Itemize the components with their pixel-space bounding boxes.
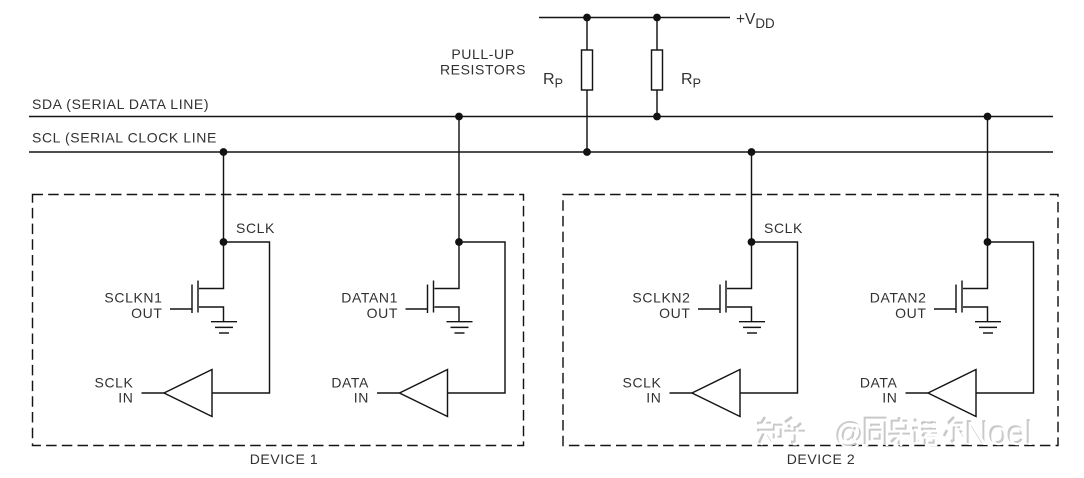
svg-text:SCLK: SCLK — [95, 375, 134, 391]
device 1 dashed box — [33, 195, 524, 446]
junction SCLK node device2 — [748, 238, 756, 246]
junction Rp2-SDA — [653, 113, 661, 121]
svg-text:RP: RP — [543, 71, 563, 91]
svg-text:SCL (SERIAL CLOCK LINE: SCL (SERIAL CLOCK LINE — [32, 130, 217, 146]
wire SDA drop device2 — [987, 117, 989, 243]
svg-text:DEVICE 2: DEVICE 2 — [787, 451, 856, 467]
ground SCLKN1 source — [211, 322, 237, 333]
ground DATAN2 source — [975, 322, 1001, 333]
svg-text:DATAN2: DATAN2 — [870, 290, 927, 306]
svg-text:IN: IN — [646, 390, 661, 406]
svg-text:DATAN1: DATAN1 — [341, 290, 398, 306]
svg-text:DATA: DATA — [331, 375, 369, 391]
junction VDD-Rp1 — [583, 14, 591, 22]
svg-text:PULL-UP: PULL-UP — [451, 46, 514, 62]
ground DATAN1 source — [447, 322, 473, 333]
svg-text:SCLK: SCLK — [764, 220, 803, 236]
junction SCL drop device1 — [220, 148, 228, 156]
wire DATA feedback loop device2 — [976, 242, 1034, 393]
junction SDA drop device2 — [984, 113, 992, 121]
svg-text:RESISTORS: RESISTORS — [440, 62, 526, 78]
wire SCL drop device1 — [223, 152, 225, 242]
wire SCLK feedback loop device2 — [740, 242, 798, 393]
junction SCLK node device1 — [220, 238, 228, 246]
svg-text:SCLKN1: SCLKN1 — [104, 290, 162, 306]
ground SCLKN2 source — [739, 322, 765, 333]
wire Rp1 bottom lead to SCL — [586, 90, 588, 152]
svg-text:RP: RP — [681, 71, 701, 91]
wire Rp2 bottom lead to SDA — [656, 90, 658, 117]
resistor Rp2 — [652, 50, 663, 90]
wire SCL drop device2 — [751, 152, 753, 242]
svg-text:SDA (SERIAL DATA LINE): SDA (SERIAL DATA LINE) — [32, 96, 209, 112]
svg-text:IN: IN — [882, 390, 897, 406]
svg-text:OUT: OUT — [895, 305, 926, 321]
transistor DATAN1 — [406, 242, 460, 321]
svg-text:OUT: OUT — [367, 305, 398, 321]
junction SDA drop device1 — [455, 113, 463, 121]
wire Rp1 top lead — [586, 18, 588, 51]
buffer DATA IN device1 — [377, 370, 448, 417]
svg-text:SCLKN2: SCLKN2 — [632, 290, 690, 306]
junction VDD-Rp2 — [653, 14, 661, 22]
resistor Rp1 — [582, 50, 593, 90]
svg-text:SCLK: SCLK — [623, 375, 662, 391]
buffer SCLK IN device2 — [670, 370, 741, 417]
junction SCL drop device2 — [748, 148, 756, 156]
wire SCLK feedback loop device1 — [212, 242, 270, 393]
transistor SCLKN2 — [698, 242, 752, 321]
svg-text:IN: IN — [354, 390, 369, 406]
svg-text:SCLK: SCLK — [236, 220, 275, 236]
transistor DATAN2 — [934, 242, 988, 321]
svg-text:DEVICE 1: DEVICE 1 — [250, 451, 319, 467]
buffer SCLK IN device1 — [142, 370, 213, 417]
svg-text:DATA: DATA — [860, 375, 898, 391]
svg-text:IN: IN — [118, 390, 133, 406]
transistor SCLKN1 — [170, 242, 224, 321]
junction Rp1-SCL — [583, 148, 591, 156]
wire SCL bus — [29, 151, 1053, 153]
junction DATA node device1 — [455, 238, 463, 246]
junction DATA node device2 — [984, 238, 992, 246]
svg-text:OUT: OUT — [659, 305, 690, 321]
wire SDA bus — [29, 116, 1053, 118]
wire Rp2 top lead — [656, 18, 658, 51]
svg-text:+VDD: +VDD — [736, 11, 775, 31]
wire SDA drop device1 — [458, 117, 460, 243]
wire +VDD rail — [539, 17, 730, 19]
svg-text:OUT: OUT — [131, 305, 162, 321]
buffer DATA IN device2 — [906, 370, 977, 417]
device 2 dashed box — [563, 195, 1058, 446]
wire DATA feedback loop device1 — [448, 242, 506, 393]
